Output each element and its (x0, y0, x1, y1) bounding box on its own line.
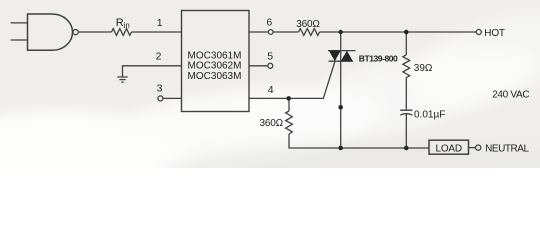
svg-text:MOC3063M: MOC3063M (188, 71, 242, 82)
svg-text:3: 3 (157, 83, 163, 95)
svg-text:6: 6 (266, 17, 272, 29)
svg-text:4: 4 (268, 84, 274, 96)
svg-text:HOT: HOT (484, 28, 505, 39)
svg-text:240 VAC: 240 VAC (492, 90, 529, 101)
svg-text:MOC3062M: MOC3062M (188, 61, 242, 72)
svg-text:5: 5 (267, 51, 273, 63)
svg-text:360Ω: 360Ω (260, 118, 284, 129)
svg-text:1: 1 (157, 17, 163, 29)
svg-text:BT139-800: BT139-800 (359, 53, 398, 63)
svg-text:R: R (116, 17, 124, 29)
svg-text:2: 2 (156, 50, 162, 62)
svg-text:LOAD: LOAD (435, 143, 461, 154)
svg-text:NEUTRAL: NEUTRAL (485, 144, 529, 155)
svg-text:0.01µF: 0.01µF (414, 110, 445, 121)
svg-text:39Ω: 39Ω (414, 63, 433, 74)
svg-text:in: in (124, 21, 130, 30)
svg-text:MOC3061M: MOC3061M (188, 50, 242, 61)
svg-text:360Ω: 360Ω (296, 19, 320, 30)
